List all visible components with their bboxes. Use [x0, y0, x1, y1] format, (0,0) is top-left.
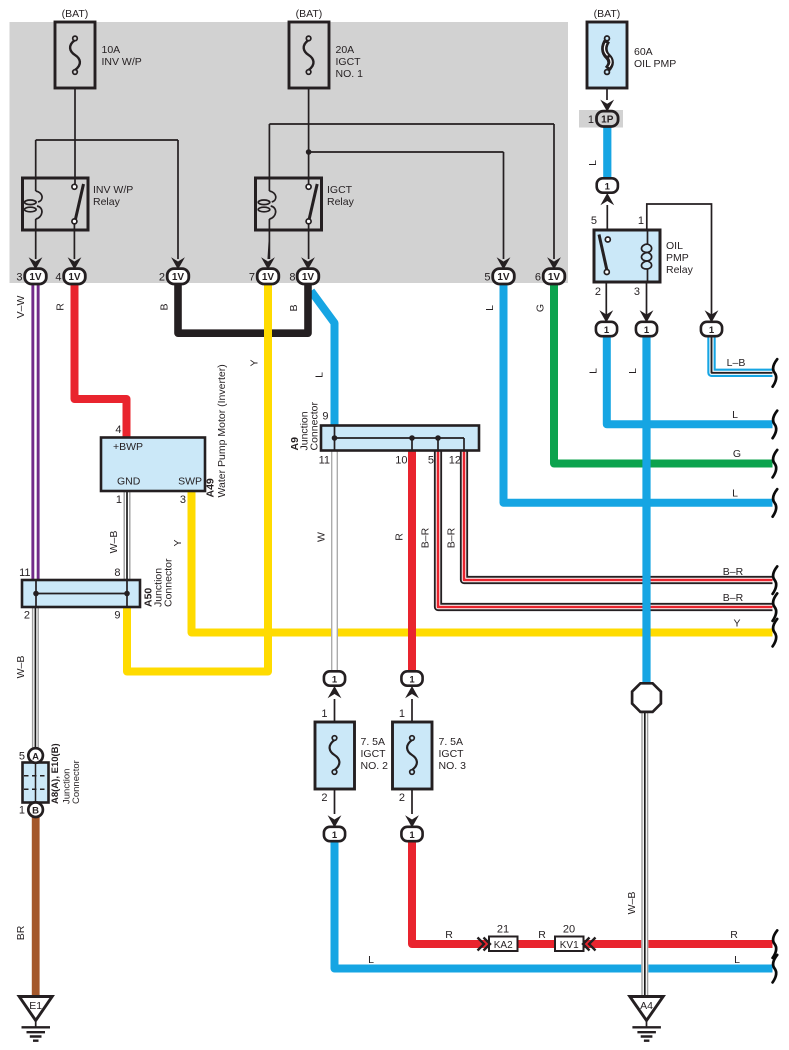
svg-text:L: L: [588, 368, 600, 374]
svg-text:L: L: [587, 160, 599, 166]
svg-text:1: 1: [588, 114, 594, 126]
splice 1 above fuse NO.3: [401, 671, 422, 685]
svg-text:L: L: [627, 368, 639, 374]
fuse 10A INV W/P: [55, 22, 95, 88]
svg-text:5: 5: [428, 455, 434, 467]
arrow up into splice 1 below 1P: [600, 193, 614, 205]
junction connector A9: [321, 426, 479, 451]
svg-text:11: 11: [319, 455, 330, 467]
svg-text:W–B: W–B: [15, 656, 27, 679]
svg-text:8: 8: [114, 567, 120, 579]
svg-text:1V: 1V: [548, 272, 561, 283]
relay IGCT: [256, 178, 322, 230]
svg-text:Connector: Connector: [71, 760, 82, 804]
junction connector A50: [22, 580, 140, 607]
connector circle A: [28, 748, 43, 763]
wire BR brown connector B to ground E1: [32, 816, 40, 997]
svg-text:L: L: [732, 488, 738, 500]
svg-text:12: 12: [449, 455, 461, 467]
svg-text:Connector: Connector: [309, 402, 321, 451]
svg-text:GND: GND: [117, 476, 141, 488]
svg-text:1V: 1V: [497, 272, 510, 283]
svg-text:10: 10: [395, 455, 407, 467]
wire L blue pin 5 to right edge: [504, 271, 773, 503]
svg-text:R: R: [445, 929, 453, 941]
wire G green pin 6 to right edge: [554, 271, 773, 464]
wire branch from node to pin 5: [309, 152, 504, 259]
svg-text:1: 1: [321, 708, 327, 720]
svg-text:2: 2: [399, 792, 405, 804]
svg-text:B–R: B–R: [446, 527, 458, 548]
connector circle B: [28, 802, 43, 817]
wire Y yellow pin 7 to A50 pin 9: [127, 271, 268, 672]
svg-text:2: 2: [321, 792, 327, 804]
svg-text:W–B: W–B: [108, 531, 120, 554]
svg-text:7: 7: [249, 272, 255, 284]
svg-text:1: 1: [19, 805, 25, 817]
wire B-R A9 pin 5 to right edge: [438, 450, 773, 607]
wire V-W violet-white pin 3 to A50 pin 11: [31, 271, 39, 581]
svg-text:1V: 1V: [68, 272, 81, 283]
arrows into splices below OIL PMP relay: [599, 310, 613, 322]
svg-text:(BAT): (BAT): [594, 8, 621, 20]
wire L blue splice to right edge: [607, 336, 773, 424]
svg-text:9: 9: [114, 610, 120, 622]
wire W-B white-black octagon to ground A4: [642, 710, 648, 996]
svg-text:L: L: [732, 409, 738, 421]
fuse 7.5A IGCT NO.2: [315, 722, 355, 789]
svg-text:NO. 2: NO. 2: [361, 760, 389, 772]
gray system panel: [10, 22, 569, 283]
svg-text:R: R: [730, 929, 738, 941]
svg-text:2: 2: [159, 272, 165, 284]
svg-text:INV W/P: INV W/P: [102, 56, 142, 68]
wire OIL PMP relay pin 1 to splice: [647, 204, 712, 317]
svg-text:L: L: [484, 305, 496, 311]
splice 1 below fuse NO.2: [324, 827, 345, 841]
splice 1 below 1P: [597, 178, 618, 192]
svg-text:1: 1: [709, 325, 715, 336]
connector KV1: [555, 937, 596, 952]
svg-text:2: 2: [595, 286, 601, 298]
svg-text:1P: 1P: [601, 115, 614, 126]
wire splice to fuse 7.5A IGCT NO.3: [411, 699, 413, 722]
svg-text:NO. 3: NO. 3: [439, 760, 467, 772]
arrows up into splices above 7.5A fuses: [328, 686, 342, 698]
svg-text:G: G: [733, 448, 741, 460]
svg-text:B: B: [159, 303, 171, 310]
svg-text:6: 6: [535, 272, 541, 284]
svg-text:KA2: KA2: [494, 940, 513, 951]
wire fuse 7.5A IGCT NO.2 pin 2 down: [334, 789, 336, 814]
svg-text:1: 1: [409, 674, 415, 685]
wire L blue fuse NO.2 splice to bottom right edge: [335, 841, 773, 969]
wire R red pin 4 to A49 +BWP pin 4: [75, 271, 127, 438]
svg-text:IGCT: IGCT: [327, 184, 353, 196]
connector KA2: [478, 937, 518, 952]
svg-text:(BAT): (BAT): [296, 8, 323, 20]
svg-text:A49: A49: [205, 478, 217, 497]
svg-text:21: 21: [497, 924, 509, 936]
ground E1: [19, 997, 52, 1041]
connector oval 1P: [597, 111, 619, 126]
junction connector A8(A), E10(B): [23, 748, 49, 817]
svg-text:5: 5: [19, 751, 25, 763]
wire IGCT relay switch to pin 8: [308, 224, 310, 259]
svg-text:Relay: Relay: [666, 264, 694, 276]
wire W-B white-black A50 pin 2 to connector A: [33, 607, 39, 749]
svg-text:R: R: [538, 929, 546, 941]
wire L blue pin 8 to A9 pin 9: [311, 291, 335, 426]
svg-text:1V: 1V: [172, 272, 185, 283]
svg-text:20: 20: [563, 924, 575, 936]
splice 1 above fuse NO.2: [324, 671, 345, 685]
wire L blue splice 3 to noise filter octagon: [642, 336, 650, 685]
junction dot IGCT feed: [306, 149, 312, 155]
svg-text:5: 5: [591, 215, 597, 227]
svg-text:SWP: SWP: [178, 476, 202, 488]
svg-text:7. 5A: 7. 5A: [361, 736, 386, 748]
wire IGCT relay coil to pin 7: [268, 219, 269, 259]
svg-text:B–R: B–R: [723, 566, 744, 578]
svg-text:A8(A), E10(B): A8(A), E10(B): [50, 743, 61, 804]
ground A4: [630, 997, 663, 1041]
svg-text:1: 1: [399, 708, 405, 720]
wire Y yellow A49 SWP to right edge: [192, 490, 773, 633]
svg-text:E1: E1: [29, 1000, 42, 1012]
water pump motor A49: [101, 438, 205, 492]
relay INV W/P: [23, 178, 89, 230]
svg-text:IGCT: IGCT: [361, 748, 387, 760]
gray band behind connector 1P: [579, 110, 623, 128]
page connector hooks right edge: [773, 359, 778, 982]
svg-text:IGCT: IGCT: [439, 748, 465, 760]
wire INV W/P relay coil to pin 3: [35, 219, 37, 259]
wire B black jumper pin 2 to pin 8: [178, 271, 308, 333]
wire L blue connector 1P to splice 1: [603, 126, 611, 179]
svg-text:11: 11: [19, 567, 30, 579]
svg-text:A: A: [32, 751, 39, 762]
fuse 7.5A IGCT NO.3: [393, 722, 433, 789]
svg-text:1: 1: [332, 830, 338, 841]
splice 1 below fuse NO.3: [401, 827, 422, 841]
svg-text:1V: 1V: [262, 272, 275, 283]
svg-text:W: W: [316, 532, 328, 542]
svg-text:B–R: B–R: [420, 527, 432, 548]
svg-text:L–B: L–B: [727, 357, 746, 369]
relay OIL PMP: [594, 230, 660, 282]
wire OIL PMP relay pin 3 down: [646, 282, 648, 317]
svg-text:B–R: B–R: [723, 592, 744, 604]
wire fuse 20A to IGCT relay switch: [308, 88, 310, 184]
splice 1 L-B branch: [701, 322, 722, 336]
svg-text:4: 4: [55, 272, 61, 284]
svg-text:A4: A4: [640, 1000, 653, 1012]
svg-text:V–W: V–W: [15, 296, 27, 319]
wire W white A9 pin 11 to splice: [332, 450, 338, 672]
svg-text:Y: Y: [249, 359, 261, 366]
svg-text:10A: 10A: [102, 44, 121, 56]
svg-text:1: 1: [605, 181, 611, 192]
svg-text:Y: Y: [733, 618, 740, 630]
svg-text:L: L: [314, 372, 326, 378]
splice 1 oil pmp relay pin 3: [636, 322, 657, 336]
svg-text:7. 5A: 7. 5A: [439, 736, 464, 748]
svg-text:1: 1: [409, 830, 415, 841]
svg-text:Connector: Connector: [163, 558, 175, 607]
svg-text:1: 1: [644, 325, 650, 336]
connector oval 5 1V: [493, 269, 515, 284]
svg-text:9: 9: [322, 411, 328, 423]
svg-text:R: R: [55, 303, 67, 311]
svg-text:R: R: [394, 533, 406, 541]
svg-text:BR: BR: [15, 925, 27, 940]
wire fuse 60A to connector 1P: [606, 88, 608, 100]
svg-text:KV1: KV1: [560, 940, 579, 951]
arrows down into splices below 7.5A fuses: [328, 815, 342, 827]
connector oval 6 1V: [543, 269, 565, 284]
wire splice to fuse 7.5A IGCT NO.2: [334, 699, 336, 722]
svg-text:1V: 1V: [302, 272, 315, 283]
splice 1 oil pmp relay pin 2: [596, 322, 617, 336]
svg-text:(BAT): (BAT): [62, 8, 89, 20]
svg-text:3: 3: [180, 494, 186, 506]
svg-text:L: L: [734, 954, 740, 966]
wire fuse 7.5A IGCT NO.3 pin 2 down: [411, 789, 413, 814]
connector oval 4 1V: [64, 269, 86, 284]
wire W-B white-black A49 GND to A50 pin 8: [124, 491, 130, 581]
svg-text:OIL: OIL: [666, 240, 683, 252]
svg-text:3: 3: [634, 286, 640, 298]
wire branch to INV W/P relay coil and pin 2: [36, 140, 178, 259]
wire branch to IGCT relay coil and pin 6: [269, 124, 554, 259]
arrows into connector 1V pins: [29, 100, 719, 828]
svg-text:1: 1: [116, 494, 122, 506]
wire OIL PMP relay pin 2 down: [605, 282, 607, 317]
noise filter octagon: [632, 683, 661, 712]
svg-text:1: 1: [604, 325, 610, 336]
svg-text:1: 1: [638, 215, 644, 227]
wire B-R A9 pin 12 to right edge: [464, 450, 773, 580]
svg-text:OIL PMP: OIL PMP: [634, 58, 676, 70]
svg-text:NO. 1: NO. 1: [336, 68, 364, 80]
wire R red A9 pin 10 to splice: [408, 450, 416, 672]
wire fuse 10A to INV W/P relay switch: [74, 88, 76, 184]
connector oval 7 1V: [257, 269, 279, 284]
svg-text:Water Pump Motor (Inverter): Water Pump Motor (Inverter): [216, 364, 228, 497]
connector oval 3 1V: [25, 269, 47, 284]
svg-text:8: 8: [289, 272, 295, 284]
svg-text:B: B: [288, 304, 300, 311]
svg-text:IGCT: IGCT: [336, 56, 362, 68]
svg-text:+BWP: +BWP: [113, 441, 143, 453]
svg-text:G: G: [535, 304, 547, 312]
svg-text:INV W/P: INV W/P: [93, 184, 133, 196]
fuse 60A OIL PMP (fusible link): [587, 22, 627, 88]
wire INV W/P relay switch to pin 4: [73, 224, 75, 259]
svg-text:W–B: W–B: [626, 892, 638, 915]
svg-text:4: 4: [115, 424, 121, 436]
svg-text:Y: Y: [172, 539, 184, 546]
fuse 20A IGCT NO.1: [289, 22, 329, 88]
svg-text:L: L: [368, 954, 374, 966]
svg-text:1V: 1V: [29, 272, 42, 283]
connector oval 2 1V: [167, 269, 189, 284]
svg-text:1: 1: [332, 674, 338, 685]
svg-text:B: B: [32, 806, 39, 817]
svg-text:Relay: Relay: [93, 196, 121, 208]
svg-text:Relay: Relay: [327, 196, 355, 208]
svg-text:PMP: PMP: [666, 252, 689, 264]
svg-text:3: 3: [16, 272, 22, 284]
arrow into connector 1P: [600, 100, 614, 112]
svg-text:20A: 20A: [336, 44, 355, 56]
wire R red fuse NO.3 splice to bottom right edge: [412, 841, 773, 944]
wire L-B blue-black splice to right edge: [712, 336, 773, 373]
connector oval 8 1V: [297, 269, 319, 284]
svg-text:2: 2: [24, 610, 30, 622]
svg-text:5: 5: [484, 272, 490, 284]
wire splice 1 to OIL PMP relay pin 5: [606, 205, 608, 237]
svg-text:60A: 60A: [634, 46, 653, 58]
